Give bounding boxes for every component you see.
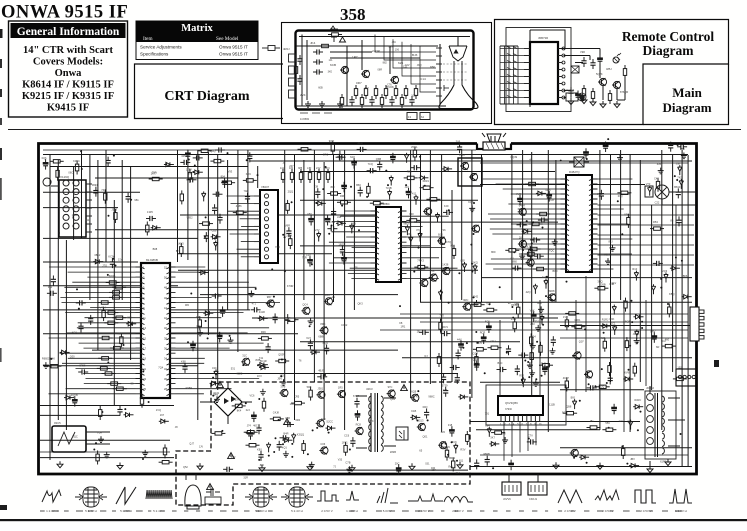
tick <box>441 511 444 512</box>
tick <box>610 511 613 512</box>
pin 16 <box>561 254 570 256</box>
pin 27 <box>589 234 598 236</box>
svg-text:C4J8: C4J8 <box>273 410 280 414</box>
svg-text:98Q0: 98Q0 <box>403 222 410 226</box>
tuner pin <box>86 207 92 209</box>
svg-text:BQB: BQB <box>625 320 631 324</box>
CRT socket <box>439 44 441 104</box>
svg-text:8Q4: 8Q4 <box>531 334 536 338</box>
svg-text:1R25: 1R25 <box>338 242 345 246</box>
svg-text:31R: 31R <box>243 477 248 480</box>
wire <box>60 296 135 298</box>
pin 4 <box>524 69 530 71</box>
HV winding <box>647 394 654 401</box>
pin 7 <box>524 90 530 92</box>
resistor R21 <box>109 296 123 299</box>
junction <box>112 258 114 260</box>
wire <box>598 264 695 266</box>
ground <box>658 168 664 174</box>
pin 35 <box>589 194 598 196</box>
capacitor C9 <box>297 75 302 85</box>
tuner pin <box>86 215 92 217</box>
capacitor C128 <box>527 439 537 444</box>
wire <box>481 155 483 302</box>
capacitor C32 <box>110 258 115 268</box>
wire <box>500 90 524 92</box>
transistor Q35 <box>319 327 328 335</box>
svg-text:C042: C042 <box>341 323 348 327</box>
resistor R3 <box>374 85 377 99</box>
svg-text:K9215 IF / K9315 IF: K9215 IF / K9315 IF <box>22 91 114 102</box>
key switch <box>507 89 517 91</box>
tick <box>124 511 131 512</box>
transistor Q20 <box>319 447 328 455</box>
pin 5 <box>524 76 530 78</box>
diode D62 <box>540 315 544 325</box>
junction <box>475 331 477 333</box>
pin 11 <box>136 318 145 320</box>
svg-text:CR5: CR5 <box>294 395 300 399</box>
wire <box>384 445 396 447</box>
diode D48 <box>326 426 336 430</box>
junction <box>212 395 214 397</box>
capacitor C101 <box>193 155 203 160</box>
svg-text:BV8: BV8 <box>541 362 546 366</box>
socket pin <box>436 47 442 49</box>
capacitor C76 <box>350 437 355 447</box>
svg-text:K7Q6: K7Q6 <box>446 240 453 244</box>
svg-text:45B73R: 45B73R <box>538 36 548 40</box>
svg-text:09Q: 09Q <box>423 405 428 409</box>
key switch <box>507 75 517 77</box>
tick <box>148 511 151 512</box>
spark gap symbol <box>331 37 346 42</box>
junction <box>424 185 426 187</box>
capacitor C120 <box>457 143 462 153</box>
wire <box>40 405 174 407</box>
junction <box>417 390 419 392</box>
svg-text:RC8: RC8 <box>356 423 362 427</box>
transistor Q28 <box>387 390 396 398</box>
wire <box>300 341 520 343</box>
pin 9 <box>558 97 563 99</box>
wire <box>176 296 212 298</box>
junction <box>535 378 537 380</box>
pin 25 <box>398 227 407 229</box>
svg-text:117V: 117V <box>186 167 192 171</box>
junction <box>586 462 588 464</box>
wire <box>302 35 307 107</box>
diode D22 <box>387 190 391 200</box>
pin 8 <box>524 97 530 99</box>
resistor R102 <box>473 348 487 351</box>
svg-text:1R5: 1R5 <box>338 386 343 390</box>
diode D56 <box>572 399 576 409</box>
tick <box>623 511 630 512</box>
tick <box>112 511 116 512</box>
wire <box>429 150 431 384</box>
diode D28 <box>435 213 439 223</box>
svg-text:J1C: J1C <box>405 185 410 189</box>
pin 13 <box>558 69 563 71</box>
connector pin P1 <box>289 54 296 62</box>
ground <box>529 370 535 376</box>
pin 17 <box>136 348 145 350</box>
junction <box>427 419 429 421</box>
capacitor C28 <box>78 369 88 374</box>
svg-text:QC4: QC4 <box>302 302 308 306</box>
wire <box>598 223 628 225</box>
tuner coil <box>63 189 79 195</box>
wire <box>491 258 561 260</box>
wire <box>180 214 378 216</box>
capacitor C107 <box>441 331 451 336</box>
junction <box>333 296 335 298</box>
resistor R35 <box>299 169 302 183</box>
wire <box>242 401 252 403</box>
electrolytic capacitor C44 <box>308 256 313 267</box>
junction <box>282 234 284 236</box>
HV winding <box>647 405 654 412</box>
junction <box>257 174 259 176</box>
resistor R18 <box>623 65 626 79</box>
HV winding <box>647 438 654 445</box>
wire <box>620 150 622 300</box>
resistor R79 <box>529 246 532 260</box>
pin 23 <box>398 237 407 239</box>
capacitor C37 <box>308 339 313 349</box>
resistor R4 <box>384 85 387 99</box>
capacitor C109 <box>419 330 429 335</box>
svg-text:4K47: 4K47 <box>563 376 570 380</box>
svg-text:J5C: J5C <box>392 41 397 44</box>
resistor R28 <box>98 357 112 360</box>
svg-text:1R1: 1R1 <box>401 325 406 329</box>
capacitor C11 <box>590 59 595 69</box>
svg-text:B84K: B84K <box>49 357 56 361</box>
resistor R106 <box>471 303 485 306</box>
svg-text:8Q5: 8Q5 <box>485 320 490 324</box>
junction <box>165 163 167 165</box>
wire <box>517 46 519 104</box>
wire <box>176 362 205 364</box>
key switch <box>507 68 517 70</box>
connector CN602 <box>528 482 547 495</box>
pin 38 <box>167 338 176 340</box>
wire <box>176 286 257 288</box>
wire <box>555 160 557 302</box>
wire <box>384 397 396 399</box>
resistor R89 <box>159 461 173 464</box>
junction <box>123 344 125 346</box>
junction <box>641 321 643 323</box>
svg-text:6VJ: 6VJ <box>306 336 311 340</box>
junction <box>284 236 286 238</box>
junction <box>477 342 479 344</box>
svg-text:KB1: KB1 <box>257 447 262 451</box>
pin 13 <box>561 239 570 241</box>
svg-text:J0Q9J: J0Q9J <box>646 386 655 390</box>
connector pin <box>683 375 686 378</box>
capacitor C27 <box>88 315 93 325</box>
resistor R64 <box>275 359 289 362</box>
capacitor C117 <box>317 374 327 379</box>
resistor R34 <box>290 169 293 183</box>
junction <box>640 411 642 413</box>
svg-text:880: 880 <box>260 464 265 467</box>
pin 19 <box>136 358 145 360</box>
resistor R132 <box>624 298 627 312</box>
transistor Q36 <box>241 358 250 366</box>
wire <box>87 276 135 278</box>
junction <box>524 360 526 362</box>
svg-text:106: 106 <box>290 402 295 406</box>
capacitor C87 <box>518 353 528 358</box>
wire <box>500 45 518 47</box>
wire <box>547 150 549 432</box>
wire <box>515 248 561 250</box>
svg-text:R9B: R9B <box>340 194 345 198</box>
junction <box>328 432 330 434</box>
capacitor C113 <box>608 374 613 384</box>
svg-text:J7Q: J7Q <box>102 263 107 267</box>
wire <box>85 317 136 319</box>
svg-text:7RK3: 7RK3 <box>417 259 424 263</box>
junction <box>312 429 314 431</box>
transistor Q4 <box>598 78 607 86</box>
svg-text:QB8: QB8 <box>566 405 572 409</box>
resistor R108 <box>439 319 442 333</box>
wire <box>361 40 363 70</box>
svg-text:See Model: See Model <box>216 36 239 42</box>
capacitor C100 <box>280 435 290 440</box>
svg-text:094: 094 <box>485 423 490 427</box>
wire <box>40 414 120 416</box>
resistor R25 <box>104 321 118 324</box>
junction <box>291 456 293 458</box>
wire <box>105 150 107 262</box>
tick <box>88 511 94 512</box>
junction <box>527 361 529 363</box>
capacitor C4 <box>409 96 414 106</box>
wire <box>513 238 561 240</box>
svg-text:6CB: 6CB <box>330 63 336 67</box>
svg-text:ONWA 9515 IF: ONWA 9515 IF <box>1 3 128 23</box>
wire <box>482 277 692 279</box>
junction <box>451 441 453 443</box>
wire <box>598 208 624 210</box>
ground <box>307 464 313 471</box>
pin 21 <box>589 264 598 266</box>
ground <box>474 300 480 306</box>
pin 5 <box>517 415 519 421</box>
svg-text:97C: 97C <box>388 385 393 389</box>
pin 37 <box>167 343 176 345</box>
electrolytic capacitor C110 <box>543 365 548 376</box>
diode D12 <box>199 270 209 274</box>
wire <box>330 51 372 53</box>
tick <box>76 511 83 512</box>
wire <box>43 237 198 239</box>
wire <box>86 431 110 433</box>
junction <box>148 401 150 403</box>
wire <box>531 152 533 396</box>
wire <box>49 337 136 339</box>
deflection coil photo <box>281 487 313 507</box>
capacitor C123 <box>668 142 673 152</box>
scan mark <box>0 89 2 97</box>
junction <box>280 375 282 377</box>
degauss coil bell <box>185 485 201 509</box>
svg-text:C06: C06 <box>320 442 325 446</box>
resistor R60 <box>47 365 61 368</box>
wire <box>496 183 561 185</box>
svg-text:8K4: 8K4 <box>237 410 242 413</box>
electrolytic capacitor C106 <box>474 360 479 371</box>
tick <box>64 511 69 512</box>
tick <box>649 511 653 512</box>
diode D30 <box>438 290 442 300</box>
wire <box>121 160 123 300</box>
resistor R27 <box>110 346 124 349</box>
pin 46 <box>167 297 176 299</box>
svg-text:9B7: 9B7 <box>267 295 272 299</box>
svg-text:BJ7V: BJ7V <box>526 245 532 249</box>
svg-text:43C: 43C <box>212 366 217 370</box>
pin 2 <box>371 216 380 218</box>
junction <box>284 270 286 272</box>
waveform W12 humps <box>444 497 473 503</box>
wire <box>356 395 367 397</box>
pin 13 <box>371 273 380 275</box>
svg-text:JBV: JBV <box>277 377 282 381</box>
pin 20 <box>398 253 407 255</box>
svg-text:0CRC: 0CRC <box>634 398 641 402</box>
module pin <box>264 240 268 244</box>
resistor R47 <box>180 190 183 204</box>
wire <box>227 195 255 197</box>
wire <box>598 178 633 180</box>
resistor R120 <box>622 445 625 459</box>
wire <box>346 46 348 106</box>
svg-text:R4BJ7Q: R4BJ7Q <box>569 170 580 174</box>
svg-text:K8: K8 <box>399 321 403 325</box>
svg-text:J74: J74 <box>247 424 252 428</box>
resistor R55 <box>75 161 78 175</box>
svg-text:111: 111 <box>85 218 89 222</box>
wire <box>68 357 136 359</box>
ground <box>600 101 606 108</box>
wire <box>629 155 631 432</box>
electrolytic capacitor C86 <box>531 311 536 322</box>
svg-text:K9415 IF: K9415 IF <box>47 103 89 114</box>
capacitor C116 <box>285 314 290 324</box>
wire <box>257 166 259 188</box>
wire <box>681 150 683 466</box>
ground <box>57 461 63 468</box>
deflection coil photo <box>245 487 277 507</box>
resistor R5 <box>394 85 397 99</box>
junction <box>101 411 103 413</box>
svg-text:207: 207 <box>289 164 294 168</box>
svg-text:JQ: JQ <box>601 385 604 389</box>
svg-text:1VQ: 1VQ <box>156 408 161 412</box>
svg-text:1KV: 1KV <box>257 374 262 378</box>
wire <box>72 281 135 283</box>
wire <box>86 378 136 380</box>
wire <box>410 150 412 398</box>
wire <box>227 210 254 212</box>
electrolytic capacitor C79 <box>252 412 257 423</box>
wire <box>480 162 688 164</box>
pin 37 <box>589 184 598 186</box>
pin 14 <box>136 333 145 335</box>
junction <box>513 251 515 253</box>
svg-text:Q00: Q00 <box>70 355 75 359</box>
pin 47 <box>167 292 176 294</box>
junction <box>594 385 596 387</box>
junction <box>131 324 133 326</box>
junction <box>572 355 574 357</box>
resistor R72 <box>367 183 370 197</box>
capacitor C105 <box>456 349 461 359</box>
LV winding <box>662 403 664 409</box>
resistor R90 <box>96 451 99 465</box>
junction <box>586 158 588 160</box>
junction <box>560 160 562 162</box>
svg-text:5JCC: 5JCC <box>327 420 334 424</box>
wire <box>513 46 515 104</box>
transistor Q6 <box>460 162 469 170</box>
resistor R139 <box>466 431 469 445</box>
svg-text:Service Adjustments: Service Adjustments <box>140 45 182 50</box>
scan mark <box>0 118 2 125</box>
tick <box>402 511 409 512</box>
wire <box>522 150 524 384</box>
resistor R65 <box>286 200 289 214</box>
scan mark <box>0 59 2 68</box>
junction <box>309 325 311 327</box>
junction <box>631 321 633 323</box>
resistor R59 <box>102 307 105 321</box>
svg-text:07Q: 07Q <box>618 194 623 198</box>
capacitor C56 <box>377 161 382 171</box>
scan mark <box>0 505 7 510</box>
capacitor C46 <box>340 246 345 256</box>
wire <box>207 152 209 335</box>
wire <box>231 203 255 205</box>
svg-text:QK3: QK3 <box>358 301 364 305</box>
wire <box>503 188 561 190</box>
pin 20 <box>136 363 145 365</box>
junction <box>204 236 206 238</box>
svg-text:0R7: 0R7 <box>356 81 362 85</box>
pin 4 <box>561 194 570 196</box>
resistor R117 <box>603 338 606 352</box>
wire <box>73 166 75 240</box>
svg-text:36V: 36V <box>527 254 532 258</box>
wire <box>43 261 138 263</box>
svg-text:8VB: 8VB <box>256 358 261 362</box>
diode D45 <box>678 165 682 175</box>
capacitor C29 <box>76 300 86 305</box>
capacitor C99 <box>284 422 294 427</box>
key switch <box>507 54 517 56</box>
resistor R122 <box>210 159 224 162</box>
tick <box>454 511 458 512</box>
junction <box>621 445 623 447</box>
CRT PCB outline <box>296 31 474 110</box>
